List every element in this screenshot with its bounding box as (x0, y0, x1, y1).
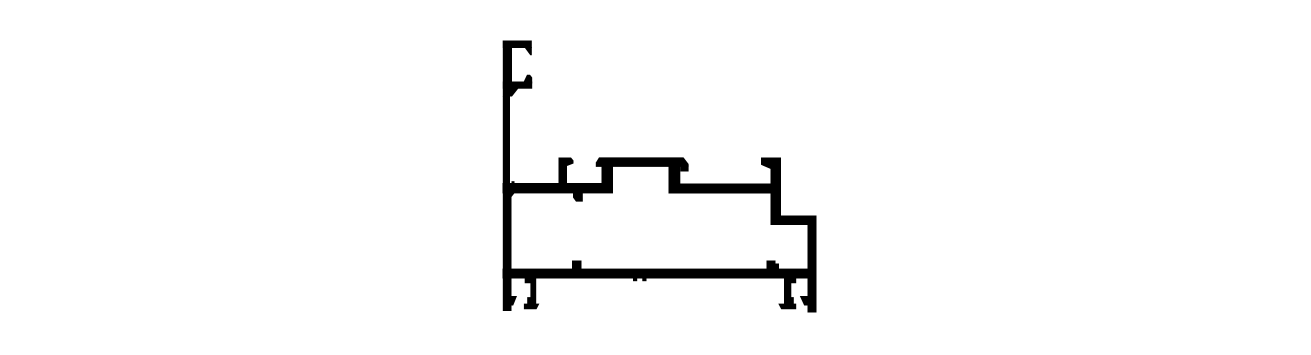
left wall upper part (503, 96, 510, 185)
hat rail right lip (680, 165, 688, 172)
hat rail right leg (669, 165, 681, 185)
right screw nub (767, 261, 780, 270)
right upright barb (761, 158, 773, 170)
hat rail left leg (602, 165, 614, 185)
right step ledge (771, 216, 817, 226)
middle transom web right segment (669, 184, 782, 194)
bottom flange (503, 269, 817, 279)
top gasket channel lower lip (524, 75, 532, 84)
center serration tooth right (642, 278, 646, 282)
upper screw nub (573, 193, 583, 202)
lower screw nub (572, 261, 582, 270)
left wall lower part (503, 183, 512, 311)
right upright member (771, 158, 782, 226)
top gasket channel upper arm (503, 41, 532, 49)
center serration tooth left (633, 278, 637, 282)
right outer wall barb (800, 296, 809, 306)
foot below gasket channel (503, 89, 518, 97)
left snap foot (524, 278, 540, 310)
left wall bottom barb (511, 296, 518, 306)
wall-web junction fillet (511, 193, 515, 198)
top gasket channel lower arm (503, 82, 532, 89)
wall-web junction bump (512, 181, 515, 184)
middle transom web left segment (503, 183, 614, 193)
glazing post stem (559, 158, 568, 184)
hat rail top flange (596, 157, 689, 167)
glazing post barb (559, 158, 574, 167)
left wall hook region (503, 41, 512, 97)
right outer wall (808, 216, 817, 313)
top gasket channel upper lip (524, 47, 532, 55)
right snap foot (778, 278, 796, 310)
